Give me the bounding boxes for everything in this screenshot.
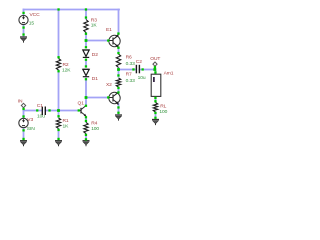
capacitor C2 xyxy=(136,65,139,74)
ground (below V3) xyxy=(20,141,27,147)
pin C1 left xyxy=(36,109,38,111)
node OUT terminal (diamond) xyxy=(153,62,157,66)
junction OUT node xyxy=(153,68,156,71)
wire VCC source to ground xyxy=(23,26,25,37)
wire rail to R3 top xyxy=(85,10,87,19)
wire input node to R1 top xyxy=(58,111,60,118)
pin X2 emitter xyxy=(117,106,119,108)
wire OUT node to ammeter Am1 xyxy=(155,70,157,75)
wire R4 bottom to ground xyxy=(85,135,87,141)
ammeter Am1 xyxy=(151,74,161,96)
svg-text:100: 100 xyxy=(159,109,167,115)
wire IN node to C1 left plate xyxy=(24,110,43,112)
wire RL bottom to ground xyxy=(155,113,157,119)
svg-text:12K: 12K xyxy=(62,68,71,74)
svg-text:E1: E1 xyxy=(106,27,112,33)
pin R7 top xyxy=(117,74,119,76)
pin C2 right xyxy=(142,68,144,70)
wire R6 bottom to output node xyxy=(118,68,120,70)
resistor R1 xyxy=(56,118,60,129)
pin D1 anode xyxy=(85,65,87,67)
wire node B to E1 base xyxy=(86,40,109,42)
svg-text:V3: V3 xyxy=(27,117,33,123)
pin R4 top xyxy=(85,120,87,122)
pin E1 collector xyxy=(117,32,119,34)
pin VCC ground xyxy=(22,33,24,35)
wire Q1 emitter to R4 top xyxy=(85,117,87,122)
diode D1 xyxy=(83,69,89,76)
pin Q1 emitter xyxy=(85,116,87,118)
svg-text:RL: RL xyxy=(160,104,166,110)
pin VCC top xyxy=(22,12,24,14)
pin D1 cathode xyxy=(85,78,87,80)
pin Am1 top xyxy=(154,71,156,73)
pin R1 top xyxy=(57,115,59,117)
wire VCC source top lead xyxy=(23,10,25,16)
junction rail-R2 xyxy=(57,8,59,10)
resistor R3 xyxy=(84,20,88,33)
pin X2 ground xyxy=(117,112,119,114)
pin VCC bottom xyxy=(22,26,24,28)
svg-text:SIN: SIN xyxy=(27,126,35,132)
pin R4 ground xyxy=(85,138,87,140)
svg-text:X2: X2 xyxy=(106,82,112,88)
pin Q1 collector xyxy=(85,105,87,107)
junction input node xyxy=(57,109,60,112)
capacitor C1 xyxy=(42,107,45,116)
wire C1 right plate to Q1 base xyxy=(46,110,79,112)
svg-text:10u: 10u xyxy=(37,113,45,119)
voltage source V3 (sine input) xyxy=(19,118,28,127)
pin RL ground xyxy=(154,117,156,119)
wire output node to R7 top xyxy=(118,70,120,77)
junction node C xyxy=(85,96,88,99)
wire V3 bottom to ground xyxy=(23,128,25,140)
wire R1 bottom to ground xyxy=(58,129,60,140)
pin R3 top xyxy=(85,16,87,18)
diode D2 xyxy=(83,50,89,57)
wire X2 emitter to ground xyxy=(118,104,120,114)
svg-text:IN: IN xyxy=(18,98,23,104)
svg-text:1K: 1K xyxy=(63,123,70,129)
wire R7 bottom to X2 collector xyxy=(118,88,120,94)
svg-text:R6: R6 xyxy=(126,55,132,61)
wire output node to C2 left plate xyxy=(120,69,137,71)
pin C1 right xyxy=(48,109,50,111)
pin R6 top xyxy=(117,52,119,54)
pin R1 ground xyxy=(57,138,59,140)
ground (below X2) xyxy=(115,115,122,121)
wire IN terminal stub xyxy=(23,108,25,111)
junction node B xyxy=(85,39,88,42)
svg-text:0.33: 0.33 xyxy=(126,61,135,67)
pin R3 bottom xyxy=(85,33,87,35)
node IN terminal (diamond) xyxy=(21,103,25,107)
wire C2 right plate to OUT node xyxy=(140,69,156,71)
transistor E1 (NPN, circled) xyxy=(109,34,120,48)
svg-text:VCC: VCC xyxy=(30,12,41,18)
svg-text:D1: D1 xyxy=(92,76,98,82)
pin E1 base xyxy=(107,39,109,41)
svg-text:OUT: OUT xyxy=(150,56,160,62)
svg-text:R3: R3 xyxy=(91,17,97,23)
wire rail to R2 top xyxy=(58,10,60,58)
ground (below R4) xyxy=(83,141,90,147)
svg-text:C1: C1 xyxy=(37,103,43,109)
wire R2 bottom to input node xyxy=(58,71,60,111)
svg-text:Q1: Q1 xyxy=(78,100,85,106)
voltage source VCC xyxy=(19,15,28,24)
svg-text:1K: 1K xyxy=(91,23,98,29)
transistor X2 (NPN, circled) xyxy=(109,92,120,106)
wire node C to Q1 collector xyxy=(85,98,87,106)
pin Q1 base xyxy=(78,109,80,111)
pin OUT diamond xyxy=(154,66,156,68)
wire Am1 bottom to RL top xyxy=(155,96,157,102)
pin R2 top xyxy=(57,56,59,58)
resistor RL xyxy=(153,103,157,113)
pin V3 bottom xyxy=(22,129,24,131)
svg-text:0.33: 0.33 xyxy=(126,78,135,84)
junction rail-R3 xyxy=(85,8,87,10)
svg-text:Am1: Am1 xyxy=(164,71,174,77)
resistor R2 xyxy=(56,59,60,71)
ground (below RL) xyxy=(152,120,159,126)
wire VCC top rail xyxy=(24,9,120,11)
pin D2 anode xyxy=(85,46,87,48)
svg-text:D2: D2 xyxy=(92,52,98,58)
pin X2 collector xyxy=(117,91,119,93)
transistor Q1 (NPN) xyxy=(79,106,87,117)
ground (below VCC) xyxy=(20,37,27,43)
ground (below R1) xyxy=(55,141,62,147)
wire node C to X2 base xyxy=(86,97,109,99)
wire R3 bottom to node B (E1 base tap) xyxy=(85,33,87,47)
svg-text:R4: R4 xyxy=(91,120,97,126)
pin C2 left xyxy=(132,68,134,70)
svg-text:C2: C2 xyxy=(136,59,142,65)
pin V3 ground xyxy=(22,138,24,140)
wire E1 emitter to R6 top xyxy=(118,48,120,53)
pin R2 bottom xyxy=(57,70,59,72)
junction output node xyxy=(117,68,120,71)
svg-text:R2: R2 xyxy=(63,62,69,68)
pin RL bottom xyxy=(154,112,156,114)
svg-text:R1: R1 xyxy=(63,118,69,124)
pin X2 base xyxy=(107,96,109,98)
pin D2 cathode xyxy=(85,59,87,61)
wire rail right drop to E1 collector xyxy=(118,10,120,35)
svg-text:15: 15 xyxy=(29,21,35,27)
svg-text:100: 100 xyxy=(91,126,99,132)
pin E1 emitter xyxy=(117,47,119,49)
wire OUT terminal stub xyxy=(154,67,156,70)
wire D1 cathode down to node C xyxy=(85,79,87,98)
resistor R4 xyxy=(84,123,88,134)
pin R7 bottom xyxy=(117,87,119,89)
wire IN node down to V3 source xyxy=(23,111,25,119)
svg-text:R7: R7 xyxy=(126,71,132,77)
svg-text:10u: 10u xyxy=(138,75,146,81)
pin RL top xyxy=(154,100,156,102)
resistor R7 xyxy=(116,78,120,87)
pin R1 bottom xyxy=(57,129,59,131)
pin IN diamond xyxy=(22,108,24,110)
pin R4 bottom xyxy=(85,134,87,136)
pin V3 top xyxy=(22,115,24,117)
pin Am1 bottom xyxy=(154,97,156,99)
resistor R6 xyxy=(116,54,120,68)
wire D2 cathode to D1 anode xyxy=(85,60,87,67)
